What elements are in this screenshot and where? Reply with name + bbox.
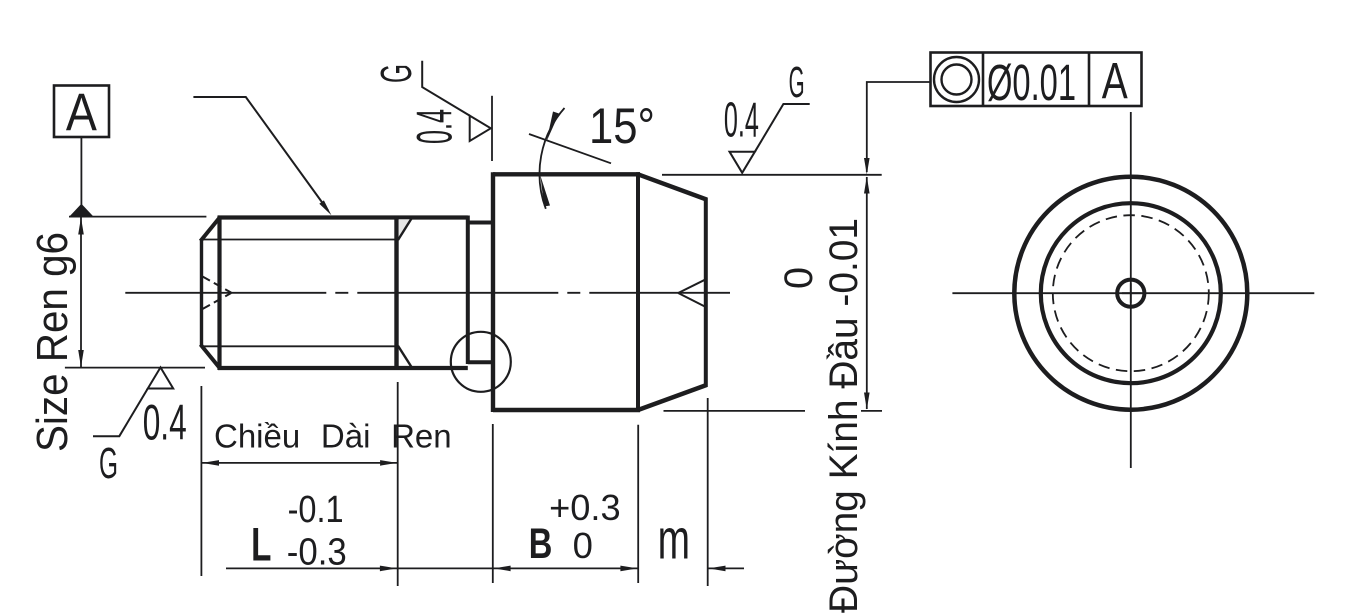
- svg-text:0.4: 0.4: [724, 93, 759, 147]
- arrow L right: [380, 566, 397, 572]
- svg-text:0.4: 0.4: [407, 109, 463, 144]
- svg-text:0: 0: [573, 525, 593, 566]
- svg-text:L: L: [251, 517, 271, 570]
- tolerance frame leader: [864, 82, 930, 175]
- leader arrow to thread: [193, 97, 331, 215]
- svg-text:-0.1: -0.1: [288, 489, 344, 531]
- svg-text:m: m: [658, 507, 690, 571]
- surface finish symbol 0.4 G (upright, on head top ext): [730, 104, 810, 173]
- thread end vertical: [394, 216, 398, 371]
- end view center hole circle: [1117, 280, 1144, 307]
- extension line head left face (vertical, for rotated symbol): [491, 96, 493, 161]
- extension line head top: [662, 174, 882, 176]
- end view outer circle: [1014, 177, 1247, 410]
- surface finish symbol 0.4 G (rotated -90, on head face ext): [422, 61, 491, 141]
- neck top line: [468, 221, 493, 225]
- extension line bottom (thread OD): [65, 367, 205, 369]
- cone top edge: [638, 174, 707, 199]
- surface finish symbol 0.4 G (rotated 180, lower-left): [93, 367, 173, 436]
- extension line thread start (bottom): [200, 386, 202, 576]
- thread start vertical: [217, 216, 221, 371]
- svg-text:G: G: [372, 64, 421, 83]
- extension line top (thread OD): [69, 216, 206, 218]
- extension line thread end (bottom): [397, 382, 399, 586]
- extension line head right (bottom): [707, 398, 709, 586]
- detail circle (undercut): [451, 332, 511, 392]
- datum A box: [54, 83, 109, 142]
- svg-text:G: G: [99, 439, 118, 488]
- tolerance frame box: [931, 53, 1142, 107]
- svg-text:+0.3: +0.3: [549, 487, 621, 528]
- svg-text:-0.3: -0.3: [287, 531, 347, 573]
- datum leader line: [80, 137, 82, 205]
- thread OD bottom line: [218, 366, 468, 370]
- svg-text:G: G: [789, 58, 805, 107]
- svg-text:0.4: 0.4: [143, 395, 187, 451]
- svg-text:15°: 15°: [589, 98, 655, 154]
- 15 degree arc arrow top: [547, 112, 560, 142]
- arrow B right: [620, 566, 637, 572]
- end view taper small end circle: [1041, 203, 1221, 383]
- taper start vertical: [636, 172, 640, 412]
- head bottom line: [493, 408, 640, 412]
- head top line: [493, 172, 640, 176]
- svg-text:Ø0.01: Ø0.01: [987, 54, 1076, 111]
- center hole right (V): [678, 279, 706, 307]
- head diameter dimension line: [864, 177, 870, 410]
- thread chamfer bottom-left: [201, 345, 221, 370]
- thread chamfer top-left: [201, 217, 221, 242]
- thread left face: [200, 239, 203, 347]
- centerline side view: [125, 292, 730, 294]
- extension line head bottom (2 segments): [664, 410, 883, 412]
- svg-text:Chiều Dài Ren: Chiều Dài Ren: [214, 418, 452, 455]
- svg-text:Size Ren g6: Size Ren g6: [28, 232, 77, 452]
- datum filled triangle: [69, 204, 93, 217]
- head right face: [704, 198, 708, 388]
- end view center cross: [1122, 283, 1142, 303]
- neck bottom line: [468, 360, 493, 364]
- cone bottom edge: [638, 385, 707, 410]
- extension line taper start (bottom): [637, 425, 639, 583]
- head left face: [491, 172, 495, 412]
- 15 degree reference line: [529, 134, 611, 163]
- svg-text:0: 0: [777, 267, 821, 289]
- 15 degree arc: [539, 108, 564, 209]
- svg-text:Đường Kính Đầu -0.01: Đường Kính Đầu -0.01: [822, 218, 866, 613]
- thread runout top (gray): [398, 219, 412, 241]
- concentricity symbol: [934, 57, 979, 102]
- thread minor diameter top: [202, 239, 397, 241]
- 15 degree arc arrow bottom: [541, 176, 551, 207]
- dimension Chieu Dai Ren: [201, 460, 397, 466]
- thread runout bottom (gray): [398, 346, 412, 367]
- dimension line Size Ren g6: [78, 217, 84, 367]
- dimension line L / B: [226, 567, 638, 569]
- extension line head face (bottom): [492, 424, 494, 583]
- arrow B left: [494, 566, 511, 572]
- dimension m right arrow with tail: [709, 566, 745, 572]
- end view horizontal centerline: [952, 292, 1314, 294]
- thread OD top line: [218, 215, 468, 219]
- neck start vertical: [466, 216, 470, 365]
- thread minor diameter bottom: [202, 345, 397, 347]
- end view vertical centerline: [1130, 112, 1132, 468]
- center hole left (hidden, dashed V): [203, 277, 232, 310]
- svg-text:A: A: [1102, 52, 1128, 109]
- end view dashed circle: [1053, 215, 1209, 371]
- svg-text:A: A: [66, 83, 98, 142]
